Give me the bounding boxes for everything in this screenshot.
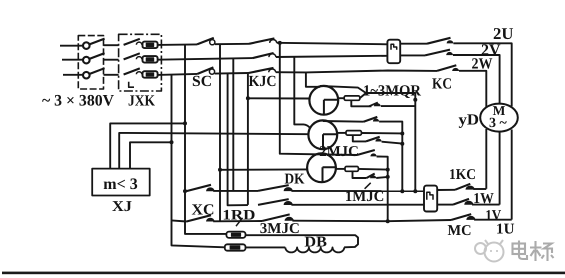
XJ phase-failure relay box m<3 (92, 169, 150, 196)
motor lead 1U vertical (511, 130, 513, 220)
wire 2U (453, 43, 511, 106)
svg-text:~ 3 × 380V: ~ 3 × 380V (42, 93, 114, 110)
thermal overload relay (bottom) (424, 186, 437, 212)
svg-text:SC: SC (192, 73, 212, 90)
svg-text:DK: DK (285, 172, 305, 188)
wire L3 KJC to KC (276, 71, 437, 73)
node v388/resistor3 (386, 168, 390, 172)
contact 1MQR aux (row1) (351, 100, 371, 106)
fuse (JXK row3) (143, 71, 158, 78)
wire L1 KJC to relay (277, 43, 388, 45)
vertical v280 from L1 to DK row (280, 43, 357, 155)
wire relay to MC pole1 (437, 204, 453, 206)
fuse 2RD (225, 244, 246, 250)
svg-text:MC: MC (448, 223, 472, 239)
svg-text:m< 3: m< 3 (103, 176, 137, 193)
wire 2V (453, 55, 500, 104)
magnet coil circle row1 (309, 86, 338, 115)
wire rail A (213, 190, 258, 192)
node v415 mid (413, 98, 417, 102)
switch SC pole3 hook (209, 69, 214, 74)
contact DK (rail A) blade (258, 185, 289, 191)
wire L1 bus (158, 43, 197, 46)
wire L2 KJC to relay (276, 56, 388, 57)
motor lead 1V vertical (499, 132, 501, 205)
svg-text:1RD: 1RD (222, 207, 255, 223)
wire relay to 1KC (437, 189, 455, 191)
QS pole 1 terminal (83, 42, 90, 49)
contactor KJC pole3 blade (249, 68, 274, 73)
svg-text:2MJC: 2MJC (319, 144, 359, 160)
leader 1MJC (365, 183, 371, 189)
vertical v228 from L3 (228, 73, 248, 205)
KC pole2 contact bump (446, 52, 453, 55)
svg-text:XC: XC (192, 202, 215, 219)
wire row2 top to v402 (379, 122, 402, 192)
wire L3 input stub (63, 74, 83, 76)
wire rail C (213, 220, 262, 222)
contactor KJC pole2 blade (253, 53, 274, 58)
wire 1W (473, 188, 486, 190)
wire L3 bus (158, 74, 198, 75)
leader 1RD (236, 218, 243, 226)
wire L1 relay to KC (400, 43, 427, 45)
XJ wire1 (110, 123, 185, 168)
KC pole3 contact bump (452, 68, 459, 71)
node v388/rail C (386, 219, 390, 223)
brake magnet coil 1~3MQR (row1) feed wire (248, 97, 310, 99)
svg-text:XJ: XJ (112, 199, 133, 215)
contactor KC pole3 blade (437, 65, 456, 71)
contact MC pole1 blade (453, 199, 469, 205)
KJC pole3 hook (269, 69, 276, 72)
watermark logo (475, 240, 504, 262)
contactor JXK enclosure (dash-dot box) (119, 34, 162, 91)
JXK pole 3 hook (136, 72, 141, 75)
motor M ellipse (480, 104, 518, 132)
contact on row3 top wire (2MJC) (357, 150, 375, 155)
wire fuse2 to DB coil (246, 246, 286, 248)
JXK pole 1 hook (136, 42, 141, 45)
magnet coil circle row2 (2MJC) (308, 120, 337, 149)
vertical v220 from L1 (219, 44, 221, 221)
rail C (MC low rail) (172, 220, 187, 221)
switch SC pole1 hook (210, 40, 215, 45)
bottom separator bar (2, 272, 565, 275)
node v402/rail A (400, 189, 404, 193)
JXK pole 2 blade (124, 53, 140, 59)
resistor row3 (335, 168, 345, 170)
node v388 lower (386, 175, 390, 179)
node L1/v280 (278, 41, 282, 45)
QS pole 3 blade (89, 68, 104, 74)
thermal overload relay RJ (top) (387, 40, 400, 64)
wire L1 SC to KJC (215, 43, 249, 45)
svg-text:3MJC: 3MJC (260, 221, 300, 237)
disconnect switch QS enclosure (dashed box) (78, 36, 103, 89)
wire rail C to MC (292, 220, 451, 221)
DK feed wire from v220 (220, 168, 308, 170)
switch SC pole1 blade (197, 38, 214, 45)
fuse 1RD-a (JXK row1) (143, 42, 158, 49)
wire 1U (474, 219, 512, 221)
resistor row1 (338, 97, 345, 99)
contact 1KC blade (455, 184, 470, 190)
wire L2 relay to KC (400, 54, 425, 56)
node v185/XJ wire1 (183, 121, 187, 125)
wire row3 top to v388 (377, 157, 388, 222)
KC pole1 contact bump (447, 40, 454, 43)
switch XC pole2 blade (187, 215, 212, 221)
wire QS to JXK row1 (104, 44, 119, 46)
node v415/rail A (413, 189, 417, 193)
switch SC pole3 blade (198, 67, 214, 74)
JXK pole 1 blade (124, 39, 140, 45)
node v402 lower (400, 142, 404, 146)
contactor KC pole2 blade (425, 50, 450, 56)
wire 2W (459, 71, 486, 108)
svg-text:JXK: JXK (128, 93, 155, 110)
contact (rail B) blade (258, 199, 289, 205)
node v402/resistor2 (400, 132, 404, 136)
vertical v185 from L1 (185, 44, 226, 234)
svg-text:KC: KC (432, 76, 452, 93)
coil top wire row1 to v415 (320, 86, 415, 191)
contact on row2 top wire (364, 117, 378, 122)
node v172/XJ wire3 (170, 140, 174, 144)
svg-text:2U: 2U (493, 24, 514, 43)
svg-text:1~3MQR: 1~3MQR (363, 83, 422, 100)
svg-text:1MJC: 1MJC (345, 189, 385, 205)
contact 1MJC aux (row3) (353, 171, 367, 178)
wire rail A to relay (291, 190, 424, 192)
wire QS to JXK row3 (104, 74, 119, 76)
switch XC pole1 blade (187, 185, 212, 191)
vertical v294 from L2 to 2MJC hook (294, 57, 310, 128)
JXK pole 3 blade (124, 68, 140, 74)
L3 step into MQR coil (306, 72, 320, 86)
magnet coil circle row3 (DK) (307, 153, 336, 182)
wire L2 input stub (62, 59, 83, 61)
node v220/DK feed (218, 168, 222, 172)
motor lead 1W vertical (485, 129, 487, 189)
wire L3 SC to KJC (215, 72, 249, 75)
JXK lever mark (129, 82, 134, 87)
JXK pole 2 hook (136, 57, 141, 60)
node v248/MQR feed (246, 96, 250, 100)
vertical v248 from L3 (247, 73, 249, 205)
contact 3MJC (rail C) blade (262, 214, 290, 221)
fuse 1RD (226, 232, 245, 238)
vertical v233 from L2 (232, 58, 234, 191)
svg-text:3 ~: 3 ~ (489, 116, 508, 131)
QS pole 1 blade (89, 39, 104, 45)
svg-text:1U: 1U (496, 222, 515, 238)
wire row1 contact to v415 (381, 105, 415, 107)
vertical v172 from L3 (172, 74, 225, 247)
KJC pole2 hook (269, 54, 276, 57)
contact 2MJC aux (row2) (353, 135, 366, 141)
inductor DB coil (285, 247, 344, 252)
wire L1 input stub (60, 45, 83, 47)
svg-text:1KC: 1KC (449, 167, 476, 183)
wire L2 bus (158, 58, 253, 60)
resistor row2 (337, 132, 346, 134)
wire fuse1 out (246, 235, 359, 247)
XJ wire2 to 2MJC coil (119, 133, 309, 169)
svg-text:1W: 1W (473, 191, 494, 207)
QS pole 2 terminal (83, 57, 90, 64)
contactor KC pole1 blade (427, 38, 451, 44)
svg-text:KJC: KJC (249, 73, 277, 90)
watermark text 电梯 (513, 241, 554, 262)
node v185/rail A (183, 189, 187, 193)
svg-text:yD: yD (459, 112, 480, 129)
QS pole 3 terminal (83, 72, 90, 79)
wire 1V (472, 204, 500, 206)
KJC pole1 hook (270, 40, 277, 43)
fuse (JXK row2) (143, 56, 158, 63)
wire rail B to relay (291, 204, 424, 206)
svg-text:DB: DB (304, 235, 327, 251)
svg-text:2W: 2W (472, 56, 493, 73)
contactor KJC pole1 blade (249, 38, 274, 43)
XJ wire3 (130, 142, 172, 168)
contact MC pole2 blade (451, 214, 471, 220)
coil top wire row2 (323, 120, 364, 123)
QS pole 2 blade (89, 53, 104, 59)
wire QS to JXK row2 (104, 59, 119, 61)
